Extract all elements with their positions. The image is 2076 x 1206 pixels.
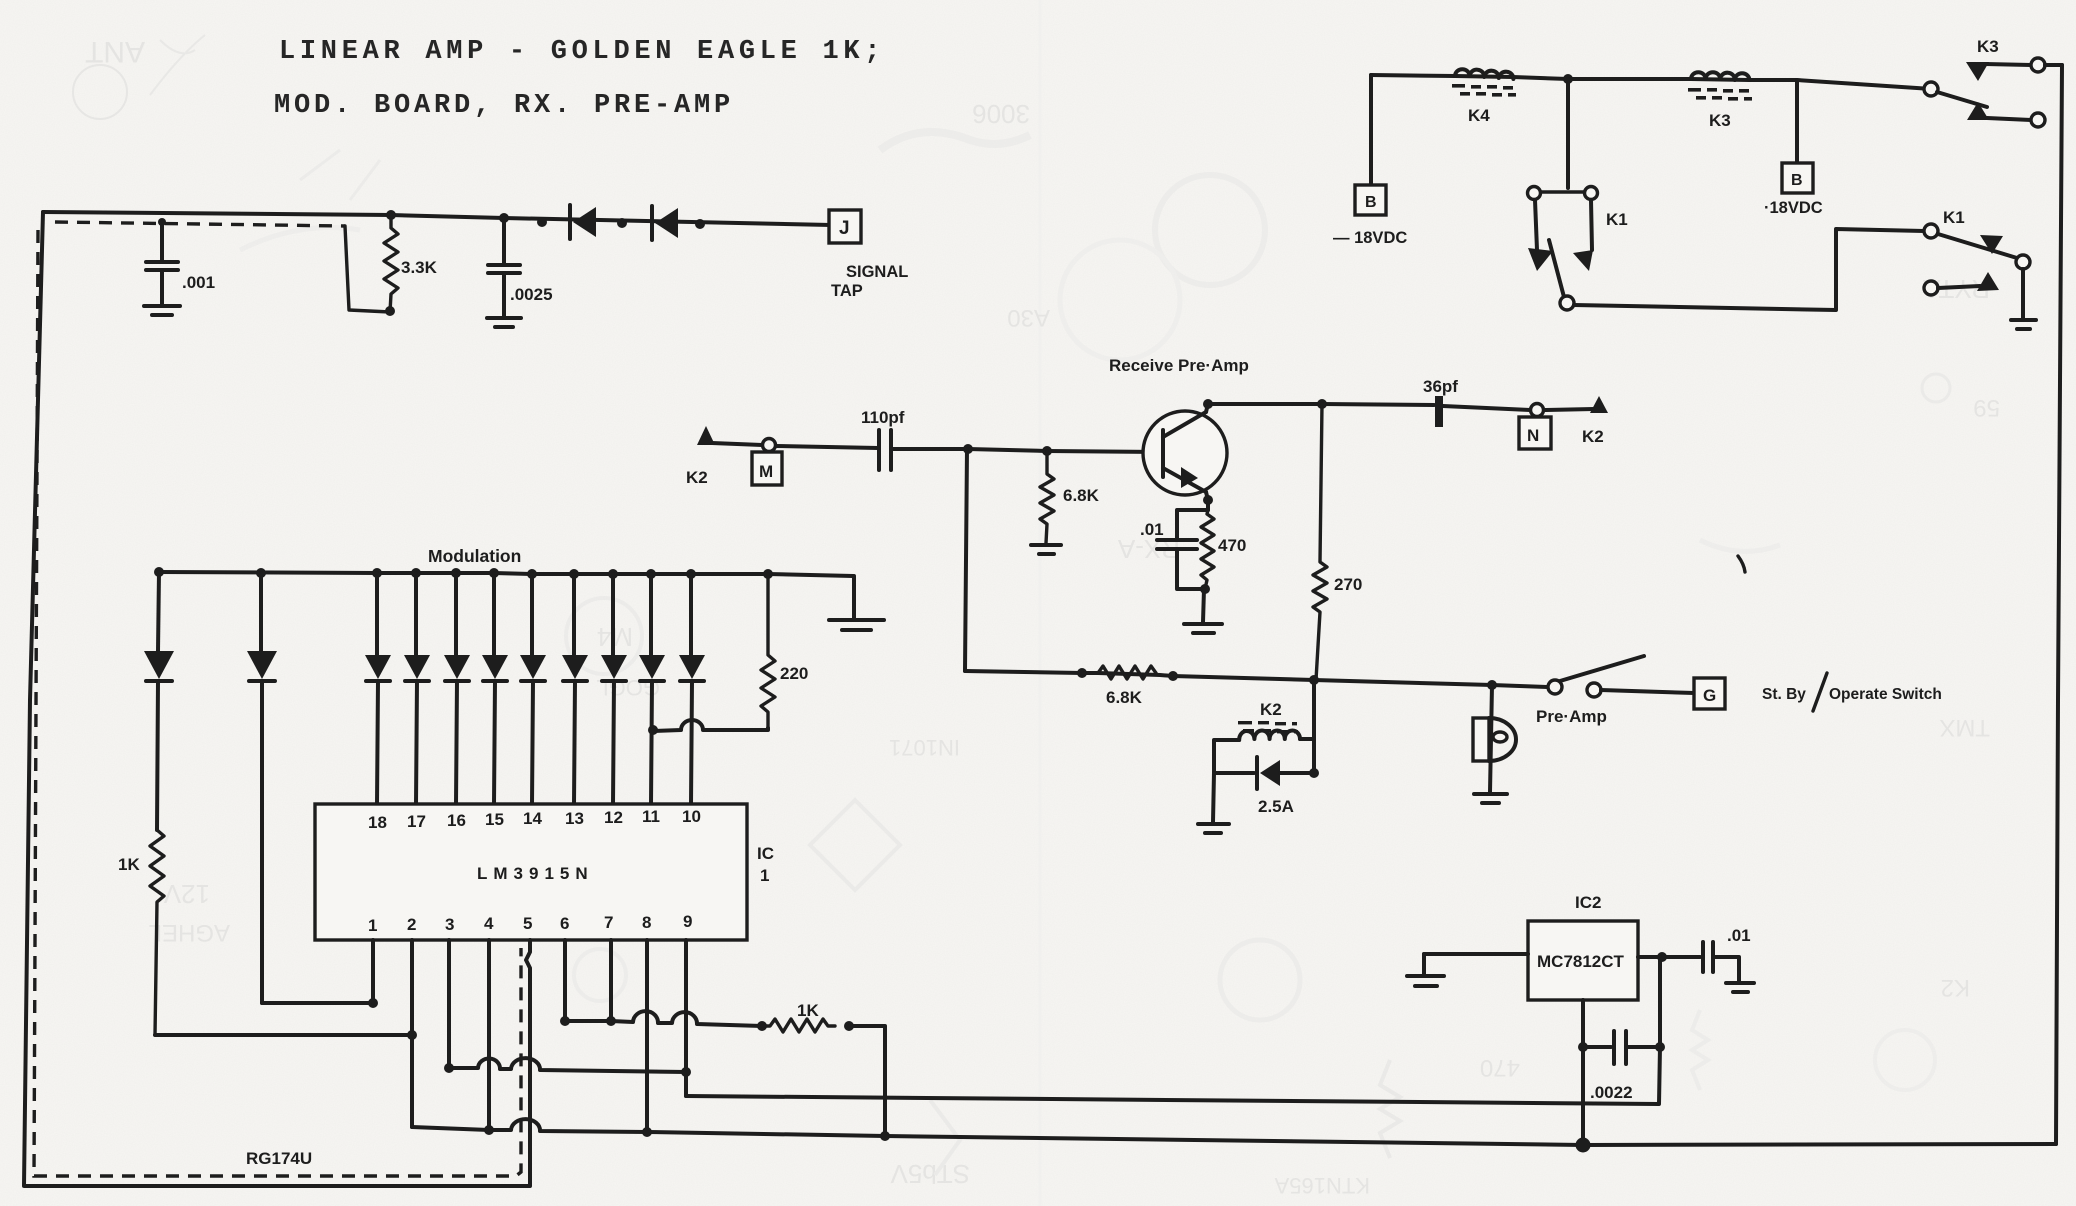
wire pin 6 drop <box>563 940 567 1021</box>
resistor 6.8K horizontal <box>1077 666 1178 707</box>
node K2 arrow right <box>1590 396 1608 413</box>
svg-text:Operate Switch: Operate Switch <box>1829 686 1942 703</box>
svg-text:3.3K: 3.3K <box>401 258 438 277</box>
resistor 6.8K (base bias) <box>1031 446 1100 554</box>
svg-text:B: B <box>1365 194 1377 211</box>
svg-text:·18VDC: ·18VDC <box>1764 199 1823 217</box>
svg-text:St. By: St. By <box>1762 686 1806 703</box>
resistor 3.3K <box>384 210 438 316</box>
svg-text:8: 8 <box>642 913 651 932</box>
node junction 270/K2 on bus <box>1309 675 1319 685</box>
svg-text:LM3915N: LM3915N <box>477 864 594 883</box>
svg-text:K2: K2 <box>1941 974 1970 1001</box>
diode to pin 13 <box>562 574 588 804</box>
bottom wiring <box>373 940 2056 1145</box>
svg-text:MC7812CT: MC7812CT <box>1537 952 1625 971</box>
wire shield dashed top <box>55 222 345 226</box>
svg-text:11: 11 <box>642 807 660 826</box>
wire pin 9 drop <box>684 940 688 1096</box>
svg-text:K2: K2 <box>1260 700 1282 719</box>
svg-text:RG174U: RG174U <box>246 1149 312 1168</box>
pin numbers bottom row <box>368 912 692 935</box>
wire 1K chain to pin2 <box>155 1033 412 1037</box>
svg-text:.001: .001 <box>182 273 215 292</box>
wire chain2 to pin1 <box>262 1001 373 1005</box>
terminal B box -18VDC right <box>1764 163 1823 217</box>
transistor Q1 receive pre-amp <box>1143 411 1227 495</box>
wire pin 1 drop <box>371 940 375 1003</box>
wire left border (coax center run) <box>24 212 530 1186</box>
wire 220 to pin-11 column (hop over pin10 col) <box>651 720 768 731</box>
diode to pin 14 <box>520 574 546 804</box>
svg-text:4: 4 <box>484 914 494 933</box>
svg-text:36pf: 36pf <box>1423 377 1458 396</box>
wire main bottom bus <box>412 1119 2056 1145</box>
wire pin 9 across to IC2 node (H4) <box>686 1047 1660 1104</box>
node big junction on bus <box>1576 1138 1591 1153</box>
diode D-a (left, pointing left) <box>537 205 627 239</box>
svg-text:IN1071: IN1071 <box>889 735 960 760</box>
svg-text:470: 470 <box>1218 536 1246 555</box>
svg-text:Receive Pre·Amp: Receive Pre·Amp <box>1109 356 1249 375</box>
wire input with ground <box>1407 954 1528 986</box>
svg-text:K3: K3 <box>1709 111 1731 130</box>
svg-text:13: 13 <box>565 809 584 828</box>
wire drop to B (.18VDC) <box>1795 80 1799 163</box>
wire pin 4 drop to bus <box>487 940 491 1130</box>
svg-text:.01: .01 <box>1140 520 1164 539</box>
capacitor .001 <box>146 218 215 305</box>
wire 110pf to base <box>891 449 1160 452</box>
terminal B box -18VDC left <box>1333 185 1407 247</box>
svg-text:LINEAR AMP - GOLDEN EAGLE 1K;: LINEAR AMP - GOLDEN EAGLE 1K; <box>279 37 885 67</box>
svg-text:IC2: IC2 <box>1575 893 1601 912</box>
svg-text:K4: K4 <box>1468 106 1490 125</box>
svg-text:.01: .01 <box>1727 926 1751 945</box>
svg-text:3006: 3006 <box>972 99 1030 129</box>
IC1 section <box>118 546 884 1035</box>
relay coil K2 <box>1214 700 1314 773</box>
svg-text:18: 18 <box>368 813 387 832</box>
wire top signal line <box>43 212 831 225</box>
terminal M <box>752 439 782 486</box>
svg-text:J: J <box>839 218 850 239</box>
inductor K4 (relay coil) <box>1452 69 1516 125</box>
svg-text:59: 59 <box>1973 394 2000 421</box>
capacitor .01 output <box>1703 926 1754 992</box>
svg-text:TMX: TMX <box>1939 714 1990 741</box>
node junction under 110pf <box>963 444 973 454</box>
svg-text:220: 220 <box>780 664 808 683</box>
middle section <box>686 356 1942 833</box>
svg-text:K2: K2 <box>1582 427 1604 446</box>
wire pin 3 drop <box>447 940 451 1068</box>
ground for .001 <box>144 306 180 315</box>
svg-text:15: 15 <box>485 810 504 829</box>
capacitor 36pf <box>1423 377 1458 427</box>
resistor 270 <box>1313 404 1362 680</box>
wire modulation bus <box>159 572 853 576</box>
svg-text:2: 2 <box>407 915 416 934</box>
resistor 470 (emitter) <box>1184 510 1246 633</box>
label St.By/Operate Switch <box>1762 673 1942 711</box>
svg-text:M: M <box>759 462 773 481</box>
wire from K1 arm to right K1 contact <box>1574 229 1924 310</box>
IC regulator MC7812CT box IC2 <box>1528 893 1638 1000</box>
svg-text:A30: A30 <box>1007 304 1050 331</box>
wire shield dashed left/bottom/right <box>34 230 521 1176</box>
diode 2.5A <box>1214 757 1319 816</box>
svg-text:— 18VDC: — 18VDC <box>1333 229 1407 247</box>
wire pin6/7 to 1K (hops pin8, pin9) <box>565 1011 762 1026</box>
capacitor .01 (emitter bypass) <box>1140 510 1208 589</box>
wire output <box>1638 955 1700 959</box>
wire collector up to output line <box>1206 404 1208 412</box>
capacitor .0022 <box>1578 1031 1665 1102</box>
diode to pin 15 <box>482 573 508 804</box>
capacitor .0025 <box>488 213 553 317</box>
inductor K3 (relay coil) <box>1688 72 1752 130</box>
svg-text:3: 3 <box>445 915 454 934</box>
wire drop to B (-18VDC) <box>1369 75 1373 185</box>
terminal G <box>1694 678 1725 709</box>
diode to pin 17 <box>404 573 430 804</box>
wire 1K down to bus <box>849 1026 885 1136</box>
ground for modulation bus <box>829 576 884 630</box>
top-right section <box>1333 37 2062 1144</box>
svg-text:12: 12 <box>604 808 623 827</box>
svg-text:5: 5 <box>523 914 532 933</box>
wire switch to G <box>1601 690 1694 693</box>
capacitor 110pf <box>861 408 905 470</box>
wire M to 110pf <box>776 446 878 448</box>
IC LM3915N box IC1 <box>315 804 774 940</box>
svg-text:K2: K2 <box>686 468 708 487</box>
diode to pin 16 <box>444 573 470 804</box>
svg-text:10: 10 <box>682 807 701 826</box>
svg-text:KTN165A: KTN165A <box>1274 1173 1370 1198</box>
diode to pin 11 <box>639 574 665 804</box>
svg-text:110pf: 110pf <box>861 408 905 427</box>
svg-text:STb5V: STb5V <box>890 1159 970 1189</box>
wire switch arm K1 left <box>1549 240 1564 297</box>
svg-text:IC: IC <box>757 844 774 863</box>
svg-text:ANT: ANT <box>85 35 145 68</box>
svg-text:TAP: TAP <box>831 282 863 300</box>
wire top supply line <box>1371 75 1931 89</box>
svg-text:N: N <box>1527 426 1539 445</box>
svg-text:6: 6 <box>560 914 569 933</box>
wire pin 8 drop to bus <box>645 940 649 1132</box>
lamp Pre-Amp indicator <box>1473 680 1516 803</box>
svg-text:1K: 1K <box>797 1001 819 1020</box>
wire output node down <box>1658 957 1662 1047</box>
wire lower bus <box>965 671 1548 687</box>
svg-text:12V: 12V <box>163 879 210 909</box>
svg-text:.0025: .0025 <box>510 285 553 304</box>
svg-text:B: B <box>1791 172 1803 189</box>
svg-text:16: 16 <box>447 811 466 830</box>
node junction at K4/K1 <box>1563 74 1573 84</box>
wire pin 2 drop to bus <box>410 940 414 1127</box>
wire pin 7 drop <box>609 940 613 1021</box>
svg-text:270: 270 <box>1334 575 1362 594</box>
ground for K2 <box>1198 773 1229 833</box>
switch Pre-Amp (st.by/operate) <box>1536 656 1644 726</box>
top-left section <box>24 205 908 1186</box>
svg-text:.0022: .0022 <box>1590 1083 1633 1102</box>
diode D-b (right, pointing left) <box>652 206 705 240</box>
svg-text:2.5A: 2.5A <box>1258 797 1294 816</box>
svg-text:K1: K1 <box>1943 208 1965 227</box>
wire right border vertical <box>2056 65 2062 1144</box>
relay K3 contacts top right <box>1924 37 2062 127</box>
diode column 2 (to pin 1) <box>247 573 277 1003</box>
wire pin 5 drop (coax center) <box>528 940 532 947</box>
pin numbers top row <box>368 807 701 832</box>
svg-text:6.8K: 6.8K <box>1063 486 1100 505</box>
svg-text:MOD. BOARD, RX. PRE-AMP: MOD. BOARD, RX. PRE-AMP <box>274 91 734 121</box>
IC2 section <box>1407 893 1754 1153</box>
wire IC2 bottom pin to bus <box>1581 1000 1585 1145</box>
svg-text:G: G <box>1703 686 1716 705</box>
node dots on bus <box>154 567 773 579</box>
svg-text:AGHEL: AGHEL <box>149 919 230 946</box>
wire emitter to RC node <box>1206 492 1208 510</box>
svg-text:6.8K: 6.8K <box>1106 688 1143 707</box>
svg-text:SIGNAL: SIGNAL <box>846 263 908 281</box>
ground for .0025 <box>487 318 521 327</box>
resistor 1K (left chain) <box>118 830 164 1035</box>
svg-text:7: 7 <box>604 913 613 932</box>
svg-text:K3: K3 <box>1977 37 1999 56</box>
svg-text:14: 14 <box>523 809 542 828</box>
schematic title <box>274 37 885 121</box>
diode to pin 12 <box>601 574 627 804</box>
relay K1 left contact pair <box>1528 187 1628 311</box>
svg-text:Modulation: Modulation <box>428 546 521 566</box>
svg-text:17: 17 <box>407 812 426 831</box>
svg-text:1: 1 <box>368 916 377 935</box>
diode to pin 10 <box>679 574 705 804</box>
wire N to K2 arrow <box>1544 409 1594 410</box>
diode to pin 18 <box>365 573 391 804</box>
wire collector output line <box>1208 404 1434 405</box>
resistor 1K horizontal <box>757 1001 854 1032</box>
node junction 270 top <box>1317 399 1327 409</box>
stray pen mark <box>1738 556 1745 572</box>
svg-text:K1: K1 <box>1606 210 1628 229</box>
terminal J box <box>829 210 908 300</box>
wire down to K1 coil contacts <box>1566 79 1570 188</box>
wire pin 3 to pin 9 (hops pin4 and coax) <box>449 1058 686 1072</box>
wire 270 down to K2 coil/diode <box>1312 680 1316 773</box>
relay K1 contacts right <box>1924 208 2036 329</box>
diode column 1 (to 1K) <box>144 572 174 830</box>
wire arrow to M circle <box>712 443 762 445</box>
wire shield link to 3.3K bottom <box>345 226 390 312</box>
resistor 220 <box>761 574 808 728</box>
svg-text:9: 9 <box>683 912 692 931</box>
svg-text:Pre·Amp: Pre·Amp <box>1536 707 1607 726</box>
wire 36pf to N <box>1443 406 1530 410</box>
svg-text:1K: 1K <box>118 855 140 874</box>
node K2 arrow left (to M) <box>697 426 715 445</box>
svg-text:470: 470 <box>1480 1054 1520 1081</box>
svg-text:1: 1 <box>760 866 769 885</box>
terminal N <box>1519 404 1551 450</box>
wire junction down to lower bus <box>965 449 967 671</box>
